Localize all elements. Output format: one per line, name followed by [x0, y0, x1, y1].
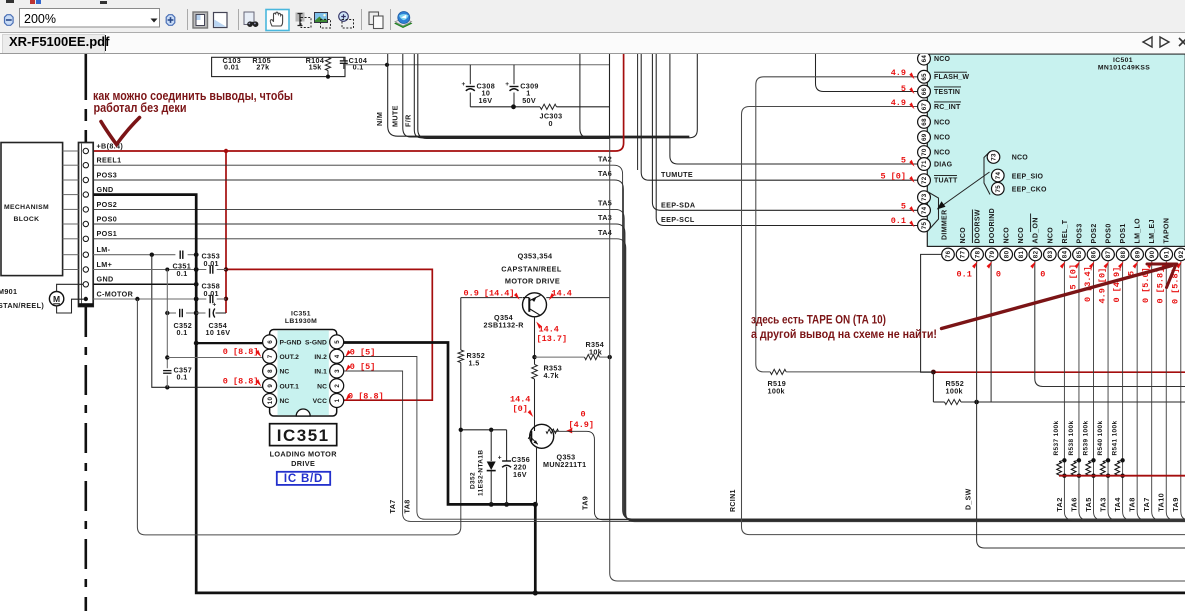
svg-text:здесь есть TAPE ON (ТА 10): здесь есть TAPE ON (ТА 10)	[751, 314, 886, 326]
svg-text:+: +	[498, 455, 502, 462]
svg-text:0: 0	[996, 270, 1001, 280]
svg-text:FLASH_W: FLASH_W	[934, 74, 969, 81]
svg-text:[13.7]: [13.7]	[537, 334, 568, 344]
svg-text:14.4: 14.4	[552, 289, 572, 299]
svg-text:BLOCK: BLOCK	[14, 216, 40, 223]
svg-text:0.1: 0.1	[177, 269, 188, 278]
svg-text:84: 84	[1062, 250, 1069, 258]
svg-text:0: 0	[581, 409, 586, 419]
svg-text:NCO: NCO	[1004, 227, 1011, 244]
svg-text:10k: 10k	[589, 348, 602, 357]
svg-text:0: 0	[1040, 270, 1045, 280]
svg-text:72: 72	[921, 176, 928, 184]
svg-text:POS3: POS3	[1076, 223, 1083, 243]
svg-text:0 [8.8]: 0 [8.8]	[348, 392, 384, 402]
svg-text:AD_ON: AD_ON	[1033, 217, 1040, 243]
svg-text:5: 5	[901, 155, 906, 165]
svg-text:TAPON: TAPON	[1164, 218, 1171, 244]
svg-text:200%: 200%	[24, 12, 56, 26]
svg-text:73: 73	[921, 193, 928, 201]
svg-text:M901: M901	[0, 287, 17, 296]
svg-text:+: +	[462, 81, 466, 88]
svg-text:POS0: POS0	[1105, 223, 1112, 243]
svg-text:LM_EJ: LM_EJ	[1149, 219, 1156, 243]
svg-text:TA9: TA9	[581, 496, 590, 510]
svg-text:TA7: TA7	[388, 499, 397, 513]
svg-text:TA2: TA2	[1055, 497, 1064, 511]
svg-text:OUT.2: OUT.2	[280, 354, 300, 361]
svg-text:TA10: TA10	[1157, 493, 1166, 512]
svg-text:TUMUTE: TUMUTE	[661, 170, 693, 179]
svg-text:C-MOTOR: C-MOTOR	[97, 289, 134, 298]
svg-text:D352: D352	[470, 472, 477, 489]
svg-text:92: 92	[1178, 250, 1185, 258]
svg-text:M: M	[53, 294, 60, 304]
svg-text:R540 100k: R540 100k	[1097, 421, 1104, 456]
svg-text:1: 1	[334, 398, 341, 402]
svg-text:LM+: LM+	[97, 260, 113, 269]
svg-text:73: 73	[991, 153, 998, 161]
svg-text:IC501: IC501	[1113, 57, 1133, 64]
svg-text:0.9 [14.4]: 0.9 [14.4]	[464, 289, 515, 299]
svg-text:DRIVE: DRIVE	[291, 459, 315, 468]
svg-text:0 [8.8]: 0 [8.8]	[223, 347, 259, 357]
svg-text:NCO: NCO	[1018, 227, 1025, 244]
svg-text:DIMMER: DIMMER	[942, 210, 949, 241]
svg-text:1.5: 1.5	[469, 359, 480, 368]
svg-text:S-GND: S-GND	[305, 340, 327, 347]
svg-text:64: 64	[921, 55, 928, 63]
svg-text:2SB1132-R: 2SB1132-R	[484, 320, 525, 329]
svg-text:0.1: 0.1	[177, 373, 188, 382]
svg-text:DOORSW: DOORSW	[975, 209, 982, 243]
svg-text:0 [4.9]: 0 [4.9]	[1112, 267, 1122, 303]
svg-text:4: 4	[334, 354, 341, 358]
svg-text:77: 77	[960, 250, 967, 258]
svg-text:DIAG: DIAG	[934, 161, 953, 168]
svg-text:10: 10	[267, 397, 274, 405]
svg-text:10 16V: 10 16V	[206, 328, 231, 337]
svg-text:0.1: 0.1	[891, 216, 906, 226]
svg-text:работал без деки: работал без деки	[94, 101, 187, 115]
svg-text:0.01: 0.01	[224, 62, 239, 71]
svg-text:IN.2: IN.2	[314, 354, 327, 361]
svg-text:65: 65	[921, 73, 928, 81]
svg-text:а другой вывод на схеме не най: а другой вывод на схеме не найти!	[751, 329, 937, 341]
svg-text:14.4: 14.4	[510, 394, 530, 404]
svg-text:75: 75	[921, 222, 928, 230]
svg-text:83: 83	[1047, 250, 1054, 258]
svg-text:VCC: VCC	[313, 398, 327, 405]
svg-text:TUATT: TUATT	[934, 178, 958, 185]
svg-text:68: 68	[921, 118, 928, 126]
svg-text:NCO: NCO	[1047, 227, 1054, 244]
svg-text:(CAPSTAN/REEL): (CAPSTAN/REEL)	[0, 301, 44, 310]
svg-text:TA7: TA7	[1142, 497, 1151, 511]
svg-text:67: 67	[921, 103, 928, 111]
svg-text:5: 5	[901, 84, 906, 94]
svg-text:[4.9]: [4.9]	[569, 420, 595, 430]
svg-text:MOTOR DRIVE: MOTOR DRIVE	[505, 277, 560, 286]
svg-text:79: 79	[989, 250, 996, 258]
svg-text:MECHANISM: MECHANISM	[4, 204, 49, 211]
svg-text:11ES2-NTA1B: 11ES2-NTA1B	[478, 450, 485, 496]
svg-text:NCO: NCO	[934, 150, 951, 157]
svg-text:9: 9	[267, 384, 274, 388]
svg-text:50V: 50V	[522, 96, 536, 105]
svg-text:4.7k: 4.7k	[544, 371, 559, 380]
svg-text:TA3: TA3	[1098, 497, 1107, 511]
svg-text:100k: 100k	[946, 387, 963, 396]
svg-text:GND: GND	[97, 275, 114, 284]
svg-text:TA5: TA5	[1084, 497, 1093, 511]
svg-text:16V: 16V	[479, 96, 493, 105]
svg-text:4.9: 4.9	[891, 68, 906, 78]
svg-text:IN.1: IN.1	[314, 369, 327, 376]
svg-text:7: 7	[267, 354, 274, 358]
svg-text:NC: NC	[317, 383, 327, 390]
svg-text:74: 74	[921, 206, 928, 214]
svg-text:80: 80	[1003, 250, 1010, 258]
svg-text:86: 86	[1091, 250, 1098, 258]
svg-text:88: 88	[1120, 250, 1127, 258]
svg-text:TA8: TA8	[1128, 497, 1137, 511]
svg-text:REEL1: REEL1	[97, 156, 122, 165]
svg-text:91: 91	[1163, 250, 1170, 258]
svg-text:NCO: NCO	[934, 135, 951, 142]
svg-text:89: 89	[1134, 250, 1141, 258]
svg-text:N/M: N/M	[375, 112, 384, 126]
svg-text:IC351: IC351	[291, 311, 311, 318]
svg-text:CAPSTAN/REEL: CAPSTAN/REEL	[501, 265, 562, 274]
svg-text:5 [0]: 5 [0]	[880, 172, 906, 182]
svg-text:TA4: TA4	[1113, 497, 1122, 512]
svg-text:TA8: TA8	[403, 499, 412, 513]
svg-text:DOORIND: DOORIND	[989, 208, 996, 244]
svg-text:0 [8.8]: 0 [8.8]	[223, 376, 259, 386]
svg-text:IC B/D: IC B/D	[284, 473, 323, 485]
svg-text:POS1: POS1	[1120, 223, 1127, 243]
svg-text:+: +	[213, 302, 217, 309]
svg-text:15k: 15k	[309, 62, 322, 71]
svg-text:RC_INT: RC_INT	[934, 104, 961, 111]
svg-text:NCO: NCO	[934, 56, 951, 63]
svg-text:F/R: F/R	[403, 114, 412, 127]
svg-text:74: 74	[995, 172, 1002, 180]
svg-text:MUTE: MUTE	[390, 105, 399, 127]
svg-text:5: 5	[901, 202, 906, 212]
svg-text:MN101C49KSS: MN101C49KSS	[1098, 64, 1150, 71]
svg-text:78: 78	[974, 250, 981, 258]
svg-text:R541 100k: R541 100k	[1111, 421, 1118, 456]
svg-text:EEP-SDA: EEP-SDA	[661, 200, 695, 209]
svg-text:14.4: 14.4	[539, 325, 559, 335]
svg-text:OUT.1: OUT.1	[280, 383, 300, 390]
svg-text:POS0: POS0	[97, 214, 118, 223]
svg-text:0.01: 0.01	[204, 259, 219, 268]
svg-text:RCIN1: RCIN1	[730, 489, 737, 512]
svg-text:R537 100k: R537 100k	[1053, 421, 1060, 456]
svg-text:NCO: NCO	[960, 227, 967, 244]
svg-text:27k: 27k	[256, 62, 269, 71]
svg-text:76: 76	[945, 250, 952, 258]
svg-text:3: 3	[334, 369, 341, 373]
svg-text:2: 2	[334, 384, 341, 388]
svg-text:[0]: [0]	[513, 404, 528, 414]
svg-text:0.1: 0.1	[177, 328, 188, 337]
svg-text:TESTIN: TESTIN	[934, 89, 960, 96]
svg-text:P-GND: P-GND	[280, 340, 302, 347]
svg-text:82: 82	[1033, 250, 1040, 258]
svg-text:NC: NC	[280, 398, 290, 405]
svg-text:0.1: 0.1	[353, 62, 364, 71]
svg-text:POS2: POS2	[1091, 223, 1098, 243]
svg-text:NC: NC	[280, 369, 290, 376]
svg-text:POS2: POS2	[97, 200, 118, 209]
svg-text:85: 85	[1076, 250, 1083, 258]
svg-text:90: 90	[1149, 250, 1156, 258]
svg-text:71: 71	[921, 160, 928, 168]
svg-text:LB1930M: LB1930M	[285, 318, 317, 325]
svg-text:EEP_CKO: EEP_CKO	[1012, 187, 1047, 194]
svg-text:6: 6	[267, 340, 274, 344]
svg-text:GND: GND	[97, 185, 114, 194]
svg-text:5: 5	[334, 340, 341, 344]
svg-text:0: 0	[549, 119, 553, 128]
svg-text:NCO: NCO	[934, 119, 951, 126]
svg-text:8: 8	[267, 369, 274, 373]
svg-text:0.01: 0.01	[204, 289, 219, 298]
svg-text:75: 75	[995, 185, 1002, 193]
svg-text:100k: 100k	[768, 387, 785, 396]
svg-text:POS1: POS1	[97, 229, 118, 238]
svg-text:69: 69	[921, 133, 928, 141]
svg-text:EEP_SIO: EEP_SIO	[1012, 173, 1044, 180]
svg-text:4.9: 4.9	[891, 98, 906, 108]
svg-text:R539 100k: R539 100k	[1082, 421, 1089, 456]
svg-text:+: +	[505, 81, 509, 88]
svg-text:POS3: POS3	[97, 170, 118, 179]
svg-text:D_SW: D_SW	[965, 488, 972, 510]
svg-text:LM-: LM-	[97, 245, 111, 254]
svg-text:LM_LO: LM_LO	[1135, 218, 1142, 244]
svg-text:Q353,354: Q353,354	[518, 252, 553, 261]
svg-text:NCO: NCO	[1012, 155, 1029, 162]
svg-text:IC351: IC351	[277, 426, 330, 445]
svg-text:70: 70	[921, 148, 928, 156]
svg-text:16V: 16V	[513, 470, 527, 479]
svg-text:LOADING MOTOR: LOADING MOTOR	[270, 449, 338, 458]
svg-text:TA9: TA9	[1171, 497, 1180, 511]
svg-text:R538 100k: R538 100k	[1068, 421, 1075, 456]
svg-text:MUN2211T1: MUN2211T1	[543, 460, 587, 469]
svg-text:66: 66	[921, 88, 928, 96]
svg-text:0 [5.8]: 0 [5.8]	[1156, 268, 1166, 304]
svg-text:87: 87	[1105, 250, 1112, 258]
svg-text:REL_T: REL_T	[1062, 219, 1069, 243]
svg-text:0.1: 0.1	[957, 270, 972, 280]
svg-text:TA6: TA6	[1069, 497, 1078, 511]
svg-text:81: 81	[1018, 250, 1025, 258]
svg-text:EEP-SCL: EEP-SCL	[661, 215, 695, 224]
svg-text:0 [3.4]: 0 [3.4]	[1083, 266, 1093, 302]
